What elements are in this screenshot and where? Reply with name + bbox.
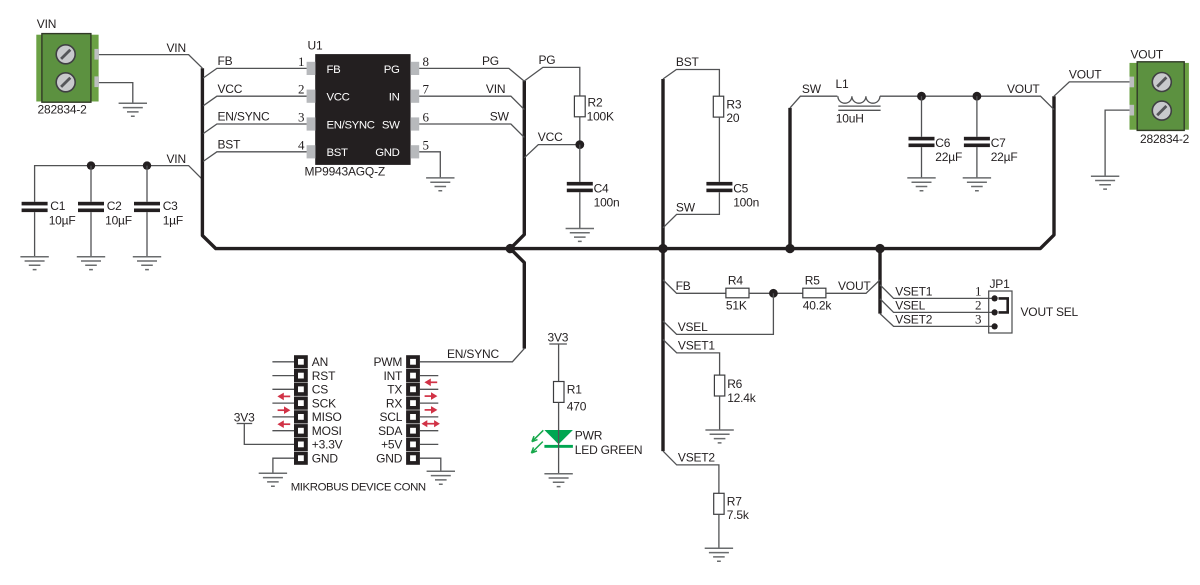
wire BST from bus to R3 bbox=[663, 70, 719, 97]
svg-text:EN/SYNC: EN/SYNC bbox=[447, 347, 499, 361]
svg-text:SCK: SCK bbox=[312, 396, 336, 410]
resistor R1 bbox=[554, 382, 583, 403]
wire VSET2 to JP1 pin3 bbox=[880, 314, 995, 327]
wire stub RX bbox=[420, 402, 438, 404]
svg-text:12.4k: 12.4k bbox=[727, 391, 757, 405]
wire PG from bus to R2 bbox=[524, 67, 580, 96]
wire FB pin1 to bus bbox=[203, 68, 306, 78]
wire C3 to ground bbox=[146, 212, 148, 257]
svg-text:FB: FB bbox=[327, 64, 341, 76]
svg-text:LED GREEN: LED GREEN bbox=[575, 443, 643, 457]
capacitor C5 bbox=[706, 181, 748, 195]
svg-text:MISO: MISO bbox=[312, 410, 342, 424]
junction bus at x510 bbox=[506, 244, 515, 253]
wire C7 to ground bbox=[976, 147, 978, 178]
wire stub INT bbox=[420, 375, 438, 377]
wire GND pin5 to ground bbox=[419, 152, 440, 178]
svg-text:6: 6 bbox=[423, 110, 430, 125]
wire GND right pin to ground bbox=[420, 458, 441, 471]
arrow left above SCK bbox=[277, 393, 290, 401]
arrow double above SDA bbox=[422, 420, 440, 427]
wire VIN rail over C1 C2 C3 to bus bbox=[35, 166, 203, 202]
svg-text:+5V: +5V bbox=[381, 438, 402, 452]
wire stub SCL bbox=[420, 416, 438, 418]
wire TB1 pin2 to ground bbox=[99, 83, 133, 104]
svg-text:3V3: 3V3 bbox=[234, 410, 255, 424]
svg-text:SW: SW bbox=[490, 110, 510, 124]
wire BST pin4 to bus bbox=[203, 152, 306, 162]
ground under R7 bbox=[705, 548, 733, 561]
wire 3V3 to R1 bbox=[558, 344, 560, 382]
resistor R5 bbox=[803, 273, 826, 298]
svg-text:C5: C5 bbox=[733, 181, 748, 195]
ground under R6 bbox=[705, 430, 733, 443]
ground at VIN connector bbox=[119, 103, 147, 116]
wire C3 top bbox=[146, 166, 148, 202]
svg-text:VCC: VCC bbox=[538, 130, 563, 144]
capacitor C4 bbox=[567, 181, 609, 195]
svg-text:C3: C3 bbox=[163, 199, 178, 213]
wire L1 to VOUT bus bbox=[880, 96, 1054, 109]
wire stub CS bbox=[272, 388, 294, 390]
svg-text:51K: 51K bbox=[726, 299, 747, 313]
svg-text:1µF: 1µF bbox=[163, 214, 183, 228]
svg-text:100n: 100n bbox=[733, 196, 759, 210]
wire stub MOSI bbox=[272, 430, 294, 432]
svg-text:10µF: 10µF bbox=[49, 214, 76, 228]
svg-text:MOSI: MOSI bbox=[312, 424, 342, 438]
svg-text:100n: 100n bbox=[594, 196, 620, 210]
svg-text:VSET1: VSET1 bbox=[678, 339, 716, 353]
junction bus at x790 bbox=[785, 244, 794, 253]
svg-text:5: 5 bbox=[423, 137, 430, 152]
wire VSEL from bus to junction bbox=[663, 293, 773, 334]
svg-text:AN: AN bbox=[312, 355, 328, 369]
wire VSET1 to JP1 pin1 bbox=[880, 285, 995, 299]
LED D1 PWR green bbox=[531, 430, 573, 453]
connector JP1 header box bbox=[989, 291, 1012, 333]
svg-text:8: 8 bbox=[423, 54, 430, 69]
node 3V3 supply at R1 bbox=[548, 330, 569, 344]
jumper bracket JP1 pins 1-2 bbox=[999, 298, 1008, 312]
wire VCC junction to C4 bbox=[579, 145, 581, 182]
svg-text:EN/SYNC: EN/SYNC bbox=[218, 110, 270, 124]
connector mikroBUS left header pads bbox=[294, 355, 308, 465]
op-amp U1 MP9943AGQ-Z body bbox=[307, 54, 420, 165]
svg-text:GND: GND bbox=[376, 451, 403, 465]
svg-text:+3.3V: +3.3V bbox=[312, 438, 343, 452]
svg-text:1: 1 bbox=[298, 54, 305, 69]
wire R3 to C5 bbox=[718, 117, 720, 182]
svg-text:FB: FB bbox=[218, 54, 233, 68]
junction at C6 top bbox=[917, 92, 926, 101]
wire VSET1 from bus to R6 bbox=[663, 340, 720, 376]
wire C2 to ground bbox=[90, 212, 92, 257]
ground under C1 bbox=[20, 257, 48, 270]
pin dot JP1 pin1 bbox=[992, 295, 998, 301]
svg-text:7.5k: 7.5k bbox=[727, 508, 750, 522]
ground under C6 bbox=[907, 178, 935, 191]
svg-text:PG: PG bbox=[539, 53, 556, 67]
ground at mikrobus left bbox=[259, 473, 287, 486]
svg-text:VSET2: VSET2 bbox=[678, 451, 716, 465]
svg-text:100K: 100K bbox=[587, 110, 614, 124]
wire EN/SYNC from bus to PWM pin bbox=[420, 349, 524, 362]
wire GND left pin to ground bbox=[273, 458, 294, 473]
wire VIN from TB1 pin1 to left bus bbox=[99, 55, 202, 69]
svg-text:3: 3 bbox=[975, 312, 982, 327]
capacitor C2 bbox=[78, 199, 122, 213]
junction bus at x663 bbox=[658, 244, 667, 253]
svg-text:C2: C2 bbox=[107, 199, 122, 213]
wire stub +5V bbox=[420, 443, 438, 445]
ground under C4 bbox=[566, 229, 594, 242]
wire R4 to R5 bbox=[749, 292, 803, 294]
wire VSEL to JP1 pin2 bbox=[880, 299, 995, 313]
svg-text:40.2k: 40.2k bbox=[803, 299, 833, 313]
svg-text:VIN: VIN bbox=[486, 82, 505, 96]
svg-text:22µF: 22µF bbox=[935, 150, 962, 164]
svg-text:R7: R7 bbox=[727, 495, 742, 509]
svg-text:10uH: 10uH bbox=[836, 112, 864, 126]
svg-text:IN: IN bbox=[389, 92, 400, 104]
junction VCC R2 C4 bbox=[575, 140, 584, 149]
wire bus branch BST FB VSEL VSET column bbox=[661, 79, 664, 451]
junction bus at x880 bbox=[875, 244, 884, 253]
svg-text:R1: R1 bbox=[567, 383, 582, 397]
wire VCC pin2 to bus bbox=[203, 96, 306, 106]
svg-text:VOUT: VOUT bbox=[1131, 48, 1164, 62]
arrow left above TX bbox=[424, 379, 437, 387]
wire C1 to ground bbox=[34, 212, 36, 257]
ground under C3 bbox=[133, 257, 161, 270]
svg-text:2: 2 bbox=[975, 298, 982, 313]
ground at mikrobus right bbox=[427, 471, 455, 484]
svg-text:3: 3 bbox=[298, 110, 305, 125]
svg-text:BST: BST bbox=[327, 147, 348, 159]
svg-text:BST: BST bbox=[218, 137, 242, 151]
svg-text:VOUT: VOUT bbox=[1007, 82, 1040, 96]
svg-text:GND: GND bbox=[312, 451, 339, 465]
arrow left above MOSI bbox=[277, 420, 290, 428]
svg-text:C6: C6 bbox=[935, 136, 950, 150]
wire stub TX bbox=[420, 388, 438, 390]
svg-text:C1: C1 bbox=[50, 199, 65, 213]
svg-text:SDA: SDA bbox=[378, 424, 402, 438]
svg-text:282834-2: 282834-2 bbox=[38, 103, 88, 117]
wire VSET2 from bus to R7 bbox=[663, 451, 719, 493]
wire C5 to SW bus bbox=[663, 192, 719, 228]
ground at VOUT connector bbox=[1091, 176, 1119, 189]
svg-text:SW: SW bbox=[802, 82, 822, 96]
arrow right above RX bbox=[425, 392, 438, 400]
wire SW pin6 to bus bbox=[419, 124, 524, 137]
svg-text:PG: PG bbox=[384, 64, 400, 76]
svg-text:R5: R5 bbox=[805, 273, 820, 287]
svg-text:VSET1: VSET1 bbox=[895, 284, 933, 298]
wire C4 to ground bbox=[579, 192, 581, 228]
svg-text:TX: TX bbox=[387, 383, 402, 397]
svg-text:1: 1 bbox=[975, 283, 982, 298]
svg-text:EN/SYNC: EN/SYNC bbox=[327, 119, 375, 131]
svg-text:GND: GND bbox=[375, 147, 399, 159]
wire C6 to ground bbox=[921, 147, 923, 178]
pin dot JP1 pin3 bbox=[992, 323, 998, 329]
wire stub AN bbox=[272, 361, 294, 363]
svg-text:VOUT: VOUT bbox=[1069, 68, 1102, 82]
svg-text:RST: RST bbox=[312, 369, 336, 383]
svg-text:RX: RX bbox=[386, 396, 402, 410]
wire TB2 pin2 to ground bbox=[1105, 110, 1129, 176]
svg-text:R6: R6 bbox=[727, 377, 742, 391]
svg-text:PG: PG bbox=[482, 54, 499, 68]
svg-text:VIN: VIN bbox=[167, 41, 186, 55]
svg-text:VOUT: VOUT bbox=[838, 279, 871, 293]
wire stub SDA bbox=[420, 430, 438, 432]
ground at U1 pin5 bbox=[426, 178, 454, 191]
resistor R2 bbox=[574, 96, 603, 117]
wire R2 to VCC junction bbox=[579, 117, 581, 145]
svg-text:4: 4 bbox=[298, 137, 305, 152]
wire stub MISO bbox=[272, 416, 294, 418]
svg-text:L1: L1 bbox=[836, 77, 849, 91]
node 3V3 supply at mikrobus bbox=[234, 410, 255, 424]
resistor R7 bbox=[714, 493, 743, 514]
svg-text:U1: U1 bbox=[308, 39, 323, 53]
wire main thick bus left-bottom-right bbox=[202, 68, 1054, 248]
svg-text:282834-2: 282834-2 bbox=[1140, 132, 1190, 146]
connector TB1 VIN 282834-2 bbox=[36, 34, 99, 103]
wire bus branch to JP1 bbox=[878, 249, 881, 314]
junction at C3 top bbox=[143, 161, 151, 169]
svg-text:10µF: 10µF bbox=[105, 214, 132, 228]
pin dot JP1 pin2 bbox=[992, 309, 998, 315]
junction R4 R5 VSEL bbox=[769, 289, 778, 298]
svg-text:2: 2 bbox=[298, 82, 305, 97]
svg-text:FB: FB bbox=[676, 279, 691, 293]
svg-text:INT: INT bbox=[383, 369, 403, 383]
ground under C2 bbox=[77, 257, 105, 270]
junction at C2 top bbox=[87, 161, 95, 169]
svg-text:VOUT SEL: VOUT SEL bbox=[1021, 305, 1079, 319]
svg-text:JP1: JP1 bbox=[990, 277, 1011, 291]
capacitor C1 bbox=[22, 199, 66, 213]
resistor R3 bbox=[713, 96, 742, 117]
capacitor C7 bbox=[964, 136, 1006, 150]
svg-text:22µF: 22µF bbox=[991, 150, 1018, 164]
svg-text:MP9943AGQ-Z: MP9943AGQ-Z bbox=[305, 165, 386, 179]
svg-text:CS: CS bbox=[312, 383, 328, 397]
resistor R6 bbox=[714, 375, 742, 396]
ground under C7 bbox=[963, 178, 991, 191]
ground under LED bbox=[544, 474, 572, 487]
wire R1 through LED to ground bbox=[558, 402, 560, 473]
svg-text:C7: C7 bbox=[991, 136, 1006, 150]
inductor L1 bbox=[836, 77, 881, 110]
junction at C7 top bbox=[973, 92, 982, 101]
capacitor C3 bbox=[134, 199, 178, 213]
svg-text:470: 470 bbox=[567, 400, 587, 414]
wire stub SCK bbox=[272, 402, 294, 404]
svg-text:VIN: VIN bbox=[37, 17, 56, 31]
svg-text:R2: R2 bbox=[588, 96, 603, 110]
svg-text:VIN: VIN bbox=[167, 152, 186, 166]
wire VCC from bus bbox=[524, 145, 580, 158]
wire stub RST bbox=[272, 375, 294, 377]
wire 3V3 to +3.3V pin bbox=[244, 424, 294, 445]
wire C2 top bbox=[90, 166, 92, 202]
wire FB from bus to R4 bbox=[663, 280, 726, 293]
svg-text:SCL: SCL bbox=[379, 410, 402, 424]
svg-text:VSEL: VSEL bbox=[895, 298, 925, 312]
arrow right above MISO bbox=[278, 406, 291, 414]
wire VOUT from bus to TB2 bbox=[1054, 82, 1130, 96]
wire bus branch up to PG VCC column bbox=[510, 81, 524, 249]
wire IN pin7 to bus bbox=[419, 96, 524, 109]
svg-text:C4: C4 bbox=[594, 181, 609, 195]
svg-text:PWR: PWR bbox=[575, 429, 603, 443]
svg-text:SW: SW bbox=[676, 201, 696, 215]
svg-text:VSEL: VSEL bbox=[678, 320, 708, 334]
svg-text:SW: SW bbox=[382, 119, 400, 131]
svg-text:VSET2: VSET2 bbox=[895, 312, 933, 326]
wire C7 top bbox=[976, 96, 978, 137]
svg-text:R4: R4 bbox=[728, 273, 743, 287]
connector mikroBUS right header pads bbox=[406, 355, 420, 465]
svg-text:PWM: PWM bbox=[373, 355, 402, 369]
wire bus branch down to EN/SYNC bbox=[510, 249, 524, 349]
resistor R4 bbox=[726, 273, 749, 298]
wire EN/SYNC pin3 to bus bbox=[203, 124, 306, 134]
capacitor C6 bbox=[909, 136, 951, 150]
svg-text:3V3: 3V3 bbox=[548, 330, 569, 344]
svg-text:VCC: VCC bbox=[327, 92, 350, 104]
svg-text:MIKROBUS DEVICE CONN: MIKROBUS DEVICE CONN bbox=[291, 482, 426, 494]
wire SW from bus to L1 bbox=[790, 96, 837, 108]
arrow right above SCL bbox=[425, 406, 438, 414]
svg-text:VCC: VCC bbox=[218, 82, 243, 96]
wire PG pin8 to bus bbox=[419, 68, 524, 81]
svg-text:BST: BST bbox=[676, 55, 700, 69]
wire R6 to ground bbox=[719, 396, 721, 430]
wire C6 top bbox=[921, 96, 923, 137]
wire R5 to VOUT bus bbox=[826, 280, 880, 293]
wire R7 to ground bbox=[718, 514, 720, 548]
connector TB2 VOUT 282834-2 bbox=[1130, 62, 1189, 131]
wire bus branch SW column bbox=[788, 108, 791, 249]
svg-text:20: 20 bbox=[726, 111, 739, 125]
svg-text:7: 7 bbox=[423, 82, 430, 97]
svg-text:R3: R3 bbox=[726, 98, 741, 112]
